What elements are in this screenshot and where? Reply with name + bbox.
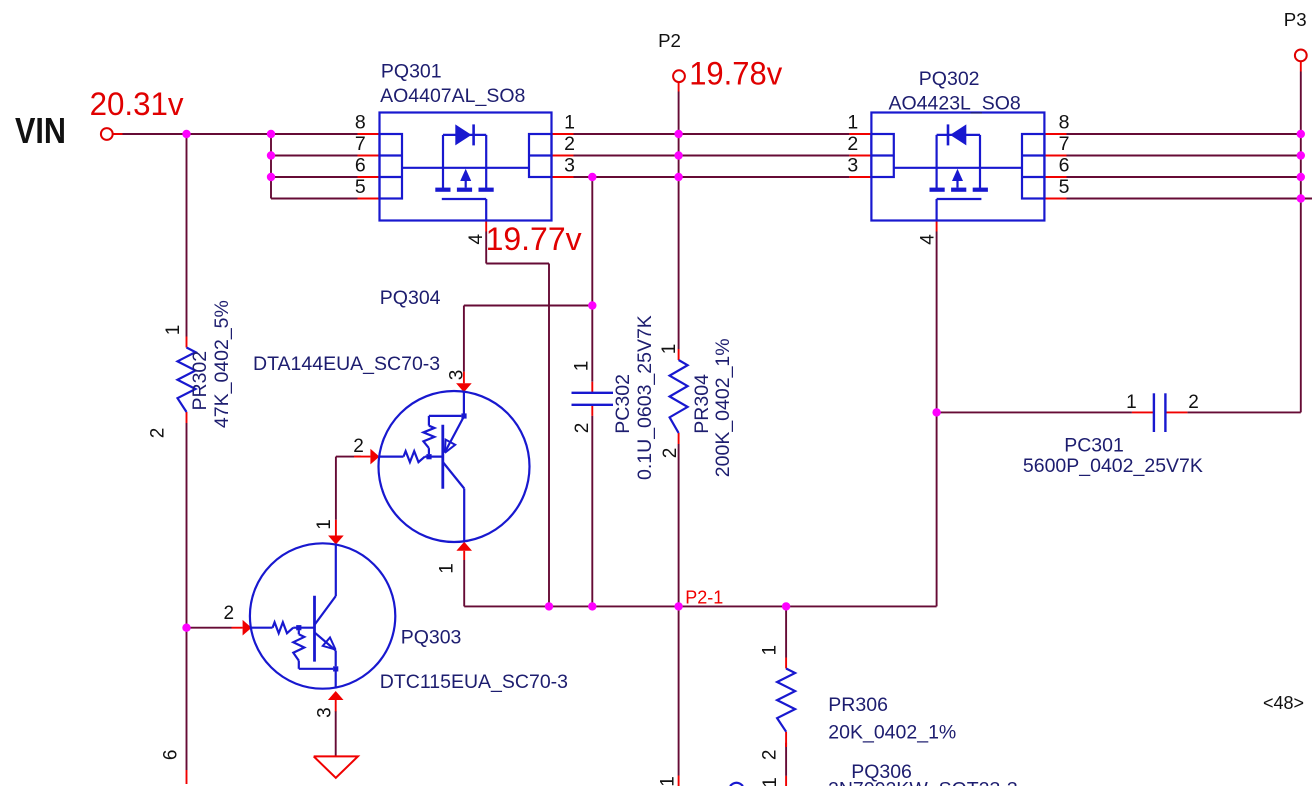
svg-text:2: 2 bbox=[1188, 392, 1199, 413]
svg-text:7: 7 bbox=[355, 133, 366, 155]
svg-text:4: 4 bbox=[466, 233, 487, 244]
svg-text:6: 6 bbox=[161, 750, 182, 761]
svg-text:<48>: <48> bbox=[1263, 693, 1304, 713]
svg-text:AO4423L_SO8: AO4423L_SO8 bbox=[889, 92, 1021, 114]
svg-text:AO4407AL_SO8: AO4407AL_SO8 bbox=[380, 85, 525, 107]
svg-text:1: 1 bbox=[564, 112, 575, 134]
svg-text:1: 1 bbox=[760, 777, 781, 786]
svg-text:1: 1 bbox=[847, 112, 858, 134]
svg-text:P3: P3 bbox=[1284, 9, 1307, 30]
svg-text:3: 3 bbox=[447, 370, 468, 381]
svg-text:2: 2 bbox=[148, 428, 169, 439]
svg-text:PQ301: PQ301 bbox=[381, 60, 442, 82]
svg-text:20K_0402_1%: 20K_0402_1% bbox=[828, 722, 956, 744]
svg-text:19.77v: 19.77v bbox=[486, 221, 583, 257]
svg-text:5: 5 bbox=[1059, 176, 1070, 198]
svg-text:2: 2 bbox=[760, 750, 781, 761]
svg-text:1: 1 bbox=[163, 325, 184, 336]
svg-text:P2-1: P2-1 bbox=[685, 588, 723, 608]
svg-text:1: 1 bbox=[572, 361, 593, 372]
svg-text:3: 3 bbox=[564, 155, 575, 177]
svg-text:P2: P2 bbox=[658, 30, 681, 51]
svg-text:1: 1 bbox=[1126, 392, 1137, 413]
svg-text:PC302: PC302 bbox=[612, 374, 634, 434]
svg-text:PR304: PR304 bbox=[691, 374, 713, 434]
svg-text:5: 5 bbox=[355, 176, 366, 198]
svg-text:200K_0402_1%: 200K_0402_1% bbox=[712, 338, 734, 477]
svg-text:3: 3 bbox=[315, 707, 336, 718]
svg-text:19.78v: 19.78v bbox=[689, 56, 783, 92]
svg-text:PQ303: PQ303 bbox=[401, 627, 462, 649]
svg-text:2: 2 bbox=[353, 436, 364, 457]
svg-text:4: 4 bbox=[918, 234, 939, 245]
svg-text:2: 2 bbox=[564, 133, 575, 155]
svg-text:2: 2 bbox=[224, 603, 235, 624]
svg-text:8: 8 bbox=[1059, 112, 1070, 134]
svg-text:8: 8 bbox=[355, 112, 366, 134]
svg-text:DTC115EUA_SC70-3: DTC115EUA_SC70-3 bbox=[380, 671, 568, 693]
svg-text:2N7002KW_SOT23-3: 2N7002KW_SOT23-3 bbox=[828, 779, 1018, 786]
svg-text:47K_0402_5%: 47K_0402_5% bbox=[211, 300, 233, 428]
svg-text:2: 2 bbox=[572, 423, 593, 434]
svg-text:PR306: PR306 bbox=[828, 694, 888, 716]
svg-text:1: 1 bbox=[437, 563, 458, 574]
svg-text:PR302: PR302 bbox=[189, 351, 211, 411]
svg-text:VIN: VIN bbox=[15, 110, 66, 151]
svg-text:PQ304: PQ304 bbox=[380, 287, 441, 309]
svg-text:5600P_0402_25V7K: 5600P_0402_25V7K bbox=[1023, 455, 1203, 477]
svg-text:1: 1 bbox=[658, 776, 679, 786]
svg-text:PQ302: PQ302 bbox=[919, 68, 980, 90]
svg-text:7: 7 bbox=[1059, 133, 1070, 155]
svg-text:DTA144EUA_SC70-3: DTA144EUA_SC70-3 bbox=[253, 353, 440, 375]
svg-text:2: 2 bbox=[660, 448, 681, 459]
svg-text:3: 3 bbox=[847, 155, 858, 177]
svg-text:2: 2 bbox=[847, 133, 858, 155]
svg-text:PC301: PC301 bbox=[1064, 435, 1124, 457]
svg-text:1: 1 bbox=[314, 519, 335, 530]
svg-text:1: 1 bbox=[659, 344, 680, 355]
svg-text:1: 1 bbox=[760, 645, 781, 656]
svg-text:6: 6 bbox=[355, 155, 366, 177]
svg-text:0.1U_0603_25V7K: 0.1U_0603_25V7K bbox=[634, 315, 656, 480]
svg-text:6: 6 bbox=[1059, 155, 1070, 177]
svg-text:20.31v: 20.31v bbox=[90, 86, 185, 122]
